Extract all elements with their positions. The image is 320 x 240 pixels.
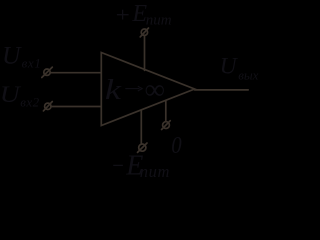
wire -E supply lead bbox=[140, 110, 142, 144]
svg-text:U: U bbox=[2, 40, 22, 69]
svg-text:пит: пит bbox=[140, 162, 170, 181]
terminal 0 bbox=[162, 121, 171, 130]
svg-text:вых: вых bbox=[238, 68, 258, 83]
svg-text:U: U bbox=[220, 54, 239, 80]
svg-text:0: 0 bbox=[171, 132, 181, 159]
label +E pit : plus sign bbox=[117, 10, 129, 20]
op-amp U1 triangle bbox=[101, 53, 194, 126]
arrow to infinity bbox=[125, 86, 142, 91]
svg-text:k: k bbox=[105, 74, 123, 106]
svg-text:вх2: вх2 bbox=[20, 94, 39, 109]
svg-text:пит: пит bbox=[146, 12, 172, 28]
svg-text:∞: ∞ bbox=[145, 75, 165, 106]
wire input 1 bbox=[50, 72, 101, 74]
terminal input 2 bbox=[43, 102, 52, 111]
label -E pit : minus sign bbox=[113, 164, 123, 166]
svg-text:U: U bbox=[0, 82, 22, 107]
terminal input 1 bbox=[42, 67, 53, 77]
wire 0 (common) lead bbox=[165, 101, 167, 122]
wire input 2 bbox=[51, 106, 101, 108]
svg-text:вх1: вх1 bbox=[22, 55, 42, 70]
wire +E supply lead bbox=[144, 36, 146, 71]
terminal -E bbox=[138, 143, 148, 152]
terminal +E bbox=[140, 28, 148, 37]
wire output bbox=[195, 89, 249, 91]
